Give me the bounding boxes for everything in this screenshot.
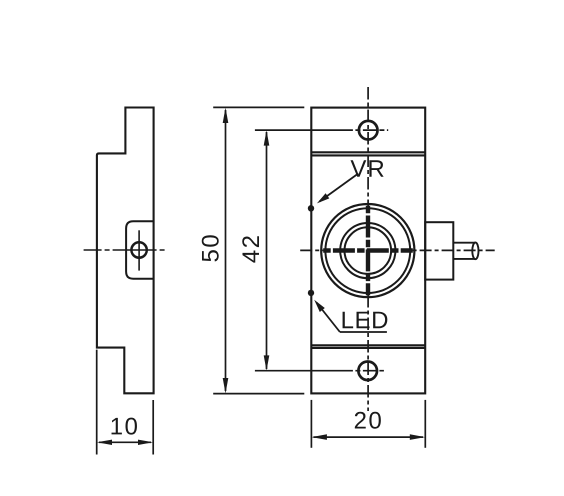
front view bottom bezel band line 2 — [311, 347, 425, 349]
VR leader arrowhead — [317, 193, 329, 203]
front view bottom mounting hole — [358, 362, 377, 381]
dimension 50 text — [202, 235, 219, 261]
side view mounting boss — [126, 221, 154, 279]
lens outer ring outer circle — [321, 204, 414, 297]
dimension 10 left arrow — [97, 440, 112, 445]
top hole horizontal centerline / 42 extension — [255, 129, 388, 131]
side view outline — [97, 108, 154, 394]
connector nipple bottom line — [453, 258, 475, 260]
front view top mounting hole — [359, 121, 378, 140]
LED leader line — [317, 303, 340, 333]
horizontal centerline right of lens — [413, 249, 495, 251]
dimension 10 right extension line — [152, 400, 154, 455]
side connector block — [425, 222, 453, 279]
dimension 20 right extension line — [424, 400, 426, 448]
dimension 20 text — [355, 412, 381, 429]
dimension 20 line — [314, 436, 424, 438]
connector nipple top line — [453, 242, 475, 244]
LED label — [343, 312, 388, 329]
VR trimmer bump — [308, 205, 311, 212]
lens outer ring inner circle — [325, 208, 410, 293]
dimension 42 text — [242, 236, 259, 262]
VR label — [351, 160, 384, 177]
dimension 42 top arrow — [264, 130, 270, 145]
dimension 50 bottom extension line — [213, 393, 304, 395]
front view body — [311, 108, 425, 394]
side view hole vertical center mark — [138, 230, 140, 270]
dimension 50 line — [225, 110, 227, 391]
lens crosshair vertical thick centerline — [366, 206, 370, 296]
vertical centerline above lens — [367, 87, 369, 206]
VR leader line — [320, 174, 359, 202]
LED leader arrowhead — [314, 300, 325, 312]
dimension 10 line — [99, 441, 151, 443]
dimension 20 left extension line — [310, 400, 312, 448]
dimension 10 left extension line — [96, 350, 98, 455]
horizontal centerline left of lens — [300, 249, 323, 251]
dimension 42 line — [266, 132, 268, 369]
dimension 50 top extension line — [213, 106, 304, 108]
dimension 20 right arrow — [410, 434, 425, 440]
bottom hole horizontal centerline / 42 extension — [255, 370, 384, 372]
lens inner ring outer circle — [340, 223, 395, 278]
front view bottom bezel band line 1 — [311, 344, 425, 346]
dimension 20 left arrow — [312, 434, 327, 440]
LED bump — [308, 290, 314, 296]
dimension 50 bottom arrow — [223, 378, 229, 394]
front view top bezel band line 1 — [311, 151, 425, 153]
vertical centerline below lens — [367, 295, 369, 411]
front view top bezel band line 2 — [311, 154, 425, 156]
side view horizontal centerline — [84, 249, 167, 251]
side view hole — [131, 242, 146, 257]
dimension 10 right arrow — [138, 440, 153, 445]
dimension 42 bottom arrow — [264, 355, 270, 370]
LED label underline — [340, 331, 387, 333]
lens inner ring inner circle — [345, 227, 392, 274]
dimension 50 top arrow — [223, 108, 229, 123]
lens crosshair horizontal thick centerline — [323, 248, 413, 252]
dimension 10 text — [112, 418, 137, 435]
connector nipple end ellipse — [472, 242, 478, 259]
